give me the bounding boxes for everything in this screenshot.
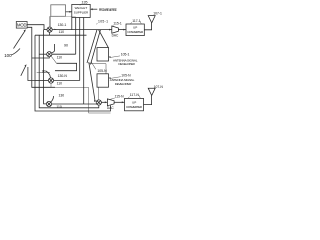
leader 105-1 bbox=[109, 56, 120, 58]
svg-text:105-N: 105-N bbox=[121, 73, 131, 77]
up converter 1 box bbox=[126, 24, 144, 36]
weight wire 4 bbox=[83, 18, 85, 105]
ASD2 box bbox=[97, 74, 109, 87]
svg-text:110: 110 bbox=[59, 30, 65, 34]
svg-text:105-1: 105-1 bbox=[121, 53, 130, 57]
svg-text:110: 110 bbox=[56, 105, 62, 109]
svg-text:105-N: 105-N bbox=[97, 69, 107, 73]
wire DAC2 to UPC2 bbox=[114, 101, 124, 103]
wire DAC1 to UPC1 bbox=[118, 29, 125, 31]
weight supplier box bbox=[72, 4, 90, 17]
bottom rail stub bbox=[89, 87, 111, 113]
antenna 1 bbox=[148, 16, 155, 23]
left rail R3 bbox=[44, 30, 47, 104]
M4 right wire to C5 bbox=[52, 103, 97, 105]
wire boxA bottom stub bbox=[58, 15, 76, 17]
svg-text:107-1: 107-1 bbox=[153, 12, 162, 16]
short diagonal near ASD2 bbox=[91, 62, 96, 70]
ASD1 box bbox=[97, 48, 109, 61]
svg-text:110: 110 bbox=[57, 56, 63, 60]
svg-text:DAC: DAC bbox=[107, 106, 114, 110]
leader 135 bbox=[80, 4, 81, 6]
M4 top wire bbox=[51, 96, 54, 102]
M3 left wire bbox=[35, 80, 48, 82]
svg-text:MOD: MOD bbox=[17, 23, 27, 28]
antenna 2 bbox=[148, 88, 155, 95]
DAC2 trapezoid bbox=[107, 99, 114, 106]
wire UPC2 to antenna 2 bbox=[144, 96, 152, 105]
bus y35 bbox=[35, 34, 87, 36]
svg-text:135: 135 bbox=[82, 0, 88, 4]
svg-text:105-1: 105-1 bbox=[98, 20, 108, 24]
wire boxA to weight supplier bbox=[66, 11, 72, 13]
svg-text:CONVERTER: CONVERTER bbox=[126, 105, 143, 109]
svg-text:DAC: DAC bbox=[112, 34, 119, 38]
svg-text:115-N: 115-N bbox=[115, 95, 125, 99]
mixer M2 bbox=[47, 52, 52, 57]
svg-text:FROM REVERSE: FROM REVERSE bbox=[99, 8, 118, 12]
crossover diagonal D1 bbox=[87, 30, 97, 63]
M1 bottom stub bbox=[49, 32, 51, 35]
input arrow 2 bbox=[21, 65, 26, 75]
wire UPC1 to antenna 1 bbox=[144, 23, 151, 30]
svg-text:115-1: 115-1 bbox=[113, 22, 122, 26]
leader 105-N bbox=[109, 77, 121, 79]
box A (upper small box) bbox=[51, 5, 66, 16]
M3 output down bbox=[32, 83, 51, 87]
svg-text:117-N: 117-N bbox=[130, 93, 140, 97]
svg-text:110: 110 bbox=[57, 82, 63, 86]
M2 left wire bbox=[39, 53, 47, 55]
crossover diagonal Da bbox=[99, 30, 109, 48]
M1 left wire bbox=[44, 29, 47, 31]
rail y63 bbox=[55, 63, 77, 70]
svg-text:117-1: 117-1 bbox=[132, 19, 141, 23]
weight wire 1 bbox=[71, 18, 73, 30]
left rail R2 bbox=[39, 35, 99, 108]
wire to ASD2 bbox=[89, 64, 107, 74]
wire B1 down to bus bbox=[27, 25, 44, 30]
svg-text:130-1: 130-1 bbox=[58, 23, 67, 27]
wire input2 to M3 bbox=[28, 67, 35, 81]
svg-text:90: 90 bbox=[64, 44, 68, 48]
svg-text:107-N: 107-N bbox=[154, 85, 164, 89]
ASD2 bottom wire bbox=[98, 87, 100, 100]
M2 output down-right bbox=[32, 57, 50, 58]
svg-text:DEVELOPER: DEVELOPER bbox=[118, 62, 135, 66]
M1 top wire to box A bbox=[49, 16, 51, 27]
left rail R0 bbox=[27, 27, 55, 87]
svg-text:130: 130 bbox=[59, 94, 65, 98]
weight wire 3 bbox=[79, 18, 81, 81]
input arrow into B1 bbox=[14, 31, 26, 49]
M3 top wire bbox=[46, 71, 51, 78]
mixer M1 bbox=[47, 27, 52, 32]
rail y72.5 bbox=[37, 72, 50, 74]
crossover diagonal Db bbox=[89, 62, 96, 101]
svg-text:UP: UP bbox=[133, 26, 137, 30]
svg-text:UP: UP bbox=[132, 100, 136, 104]
svg-text:SUPPLIER: SUPPLIER bbox=[74, 11, 89, 15]
weight wire 2 bbox=[75, 18, 77, 55]
DAC1 trapezoid bbox=[112, 26, 119, 33]
leader for 100 bbox=[11, 49, 20, 56]
M3 right wire to weight wire 3 bbox=[54, 80, 80, 82]
mixer M3 bbox=[48, 78, 53, 83]
rail y63 to diagonal bbox=[51, 56, 56, 63]
svg-text:130-N: 130-N bbox=[58, 74, 68, 78]
up converter 2 box bbox=[125, 98, 144, 110]
FROM REVERSE arrow bbox=[91, 8, 97, 10]
svg-text:CONVERTER: CONVERTER bbox=[127, 30, 144, 34]
wire C5 to DAC2 bbox=[101, 101, 107, 103]
M2 top wire bbox=[52, 44, 55, 53]
summer C5 bbox=[96, 100, 101, 105]
svg-text:DEVELOPER: DEVELOPER bbox=[115, 82, 132, 86]
wire W1 M1 to DAC1 bbox=[52, 29, 111, 31]
modulator box B1 bbox=[16, 22, 27, 29]
M2 right wire to weight wire 2 bbox=[52, 53, 76, 55]
svg-text:100: 100 bbox=[4, 53, 12, 58]
left rail R1 bbox=[35, 35, 111, 111]
mixer M4 bbox=[46, 101, 51, 106]
crossover diagonal D2 bbox=[91, 30, 101, 65]
